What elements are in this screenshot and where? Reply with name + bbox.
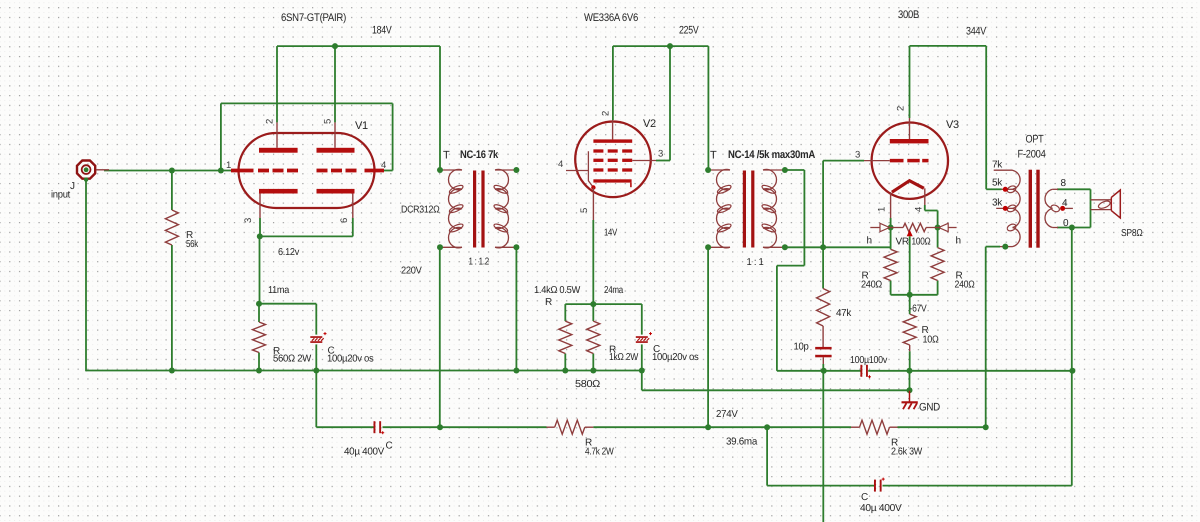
tube V1 6SN7-GT envelope — [239, 133, 375, 208]
capacitor C 40u 400V (left feed cap) — [374, 421, 376, 433]
V1 left anode bar — [259, 148, 298, 153]
speaker coil leaf — [1097, 200, 1111, 210]
OPT 5k tap — [1002, 188, 1013, 190]
capacitor C 40u 400V (output loop) — [874, 480, 876, 492]
VR wiper arrow — [907, 230, 913, 237]
svg-text:274V: 274V — [716, 409, 738, 420]
junction dot on 184V rail at pin5 — [332, 43, 338, 49]
svg-text:1: 1 — [226, 160, 231, 171]
OPT 7k stub lead — [994, 169, 1013, 171]
svg-text:47k: 47k — [836, 308, 852, 319]
V1 left cathode pin lead — [259, 194, 261, 219]
svg-text:2.6k 3W: 2.6k 3W — [891, 447, 923, 458]
wire: V1 pin 4 to feedback rail — [384, 170, 393, 172]
V3 filament pin 1 lead — [890, 192, 892, 218]
svg-text:4: 4 — [381, 160, 386, 171]
wire: 184V anode rail y=46.1 — [277, 45, 440, 47]
junction dot 47k node — [820, 244, 826, 250]
svg-text:1.4kΩ 0.5W: 1.4kΩ 0.5W — [534, 285, 581, 296]
svg-text:NC-16 7k: NC-16 7k — [460, 149, 499, 161]
V2 cathode pin5 lead — [592, 188, 594, 221]
svg-text:24ma: 24ma — [604, 285, 624, 296]
svg-text:J: J — [70, 181, 75, 192]
wire: 39.6ma branch down and right to output cap rail — [766, 427, 768, 485]
V2 grid rows dashes — [593, 149, 603, 152]
wire: R 560 leads — [258, 304, 260, 322]
svg-text:240Ω: 240Ω — [861, 280, 883, 291]
junction dot at jack/R56k node — [169, 168, 175, 174]
wire: 225V rail down to T2 primary top — [707, 46, 709, 170]
resistor R 240 right — [931, 248, 944, 281]
junction dot hum bottom center — [907, 292, 913, 298]
wire: T2 primary bottom down to 274V rail — [707, 247, 709, 427]
junction dot on 225V rail (screen feed) — [667, 43, 673, 49]
OPT secondary 8 lead — [1053, 188, 1058, 190]
svg-text:-67V: -67V — [910, 304, 928, 315]
wire: GND bus y=370.8 — [777, 370, 861, 372]
junction dots on left ground rail — [169, 368, 175, 374]
wire: 47k node to V3 grid (up and over) — [822, 161, 824, 248]
hum balance left arrow h — [870, 227, 880, 229]
svg-text:NC-14 /5k max30mA: NC-14 /5k max30mA — [728, 149, 815, 161]
capacitor C 100u20v os (V2 bypass) — [636, 336, 648, 338]
OPT secondary 4 tap — [1050, 204, 1061, 213]
svg-text:100µ20v os: 100µ20v os — [652, 352, 699, 363]
svg-text:2: 2 — [265, 119, 276, 124]
resistor R 1k 2W — [587, 321, 600, 353]
svg-text:3: 3 — [855, 150, 860, 161]
speaker SP8 pins — [1091, 199, 1111, 201]
capacitor C 100u100v (inline on GND bus) — [860, 365, 862, 377]
svg-text:6: 6 — [339, 218, 350, 223]
svg-text:1 : 1.2: 1 : 1.2 — [469, 257, 490, 268]
svg-text:344V: 344V — [966, 26, 987, 38]
junction dot OPT primary bottom drop — [983, 424, 989, 430]
resistor R 56k — [165, 210, 178, 245]
wire: V1 pin2 lead up to 184V rail — [276, 46, 278, 122]
svg-text:OPT: OPT — [1026, 134, 1044, 146]
svg-text:2: 2 — [601, 111, 612, 116]
junction dot T2 primary bottom drop — [705, 424, 711, 430]
svg-text:240Ω: 240Ω — [955, 280, 976, 291]
svg-text:F-2004: F-2004 — [1018, 149, 1046, 161]
wire: branch from rail down to B+ feed line — [315, 371, 317, 428]
transformer T1 NC-16 7k core — [473, 171, 476, 248]
V1 right cathode pin lead — [352, 194, 354, 219]
junction dot OPT 0 tap branch — [1069, 225, 1075, 231]
svg-text:4: 4 — [914, 207, 925, 212]
junction dot rail2 drop on input wire — [218, 168, 224, 174]
svg-text:7k: 7k — [992, 160, 1003, 171]
svg-text:5: 5 — [323, 119, 334, 124]
svg-text:580Ω: 580Ω — [575, 379, 601, 390]
OPT primary bottom lead — [986, 246, 1000, 248]
svg-text:GND: GND — [919, 402, 940, 414]
junction dot 39.6ma branch — [764, 424, 770, 430]
svg-text:5k: 5k — [992, 178, 1003, 189]
wire: left 240 ohm top lead — [890, 228, 892, 250]
wire: R56k leads — [171, 171, 173, 211]
svg-text:10p: 10p — [794, 342, 810, 353]
svg-text:10Ω: 10Ω — [923, 335, 940, 346]
svg-text:8: 8 — [1061, 178, 1067, 189]
V2 anode bar — [593, 139, 632, 142]
V1 right anode bar — [317, 148, 355, 153]
svg-text:h: h — [956, 236, 961, 247]
V2 cathode bar — [593, 179, 631, 182]
wire: V2 screen pin3 up to 225V rail — [669, 46, 671, 160]
wire: ground return from rail down to GND bus — [641, 371, 643, 391]
svg-text:V2: V2 — [643, 118, 656, 130]
svg-text:100µ20v os: 100µ20v os — [327, 354, 374, 365]
wire: feed rail between R4.7k and R2.6k — [585, 426, 594, 428]
speaker horn — [1111, 190, 1120, 218]
svg-text:1kΩ 2W: 1kΩ 2W — [609, 352, 639, 363]
resistor R 10 — [903, 314, 916, 345]
wire: grid feedback rail y=103.4 linking both V1 grids — [221, 102, 393, 104]
resistor 47k — [817, 289, 830, 327]
svg-text:100Ω: 100Ω — [912, 237, 932, 248]
wire: V3 filament pin4 lead jog down to hum pot — [924, 205, 926, 211]
svg-text:DCR312Ω: DCR312Ω — [401, 205, 440, 216]
V1 left anode pin lead — [276, 122, 278, 147]
svg-text:6.12v: 6.12v — [278, 247, 299, 258]
V2 screen row lead to pin 3 — [632, 160, 656, 162]
resistor R 1.4k — [559, 321, 572, 353]
svg-text:C: C — [386, 441, 393, 452]
wire: 10p cap bottom to GND bus, continuing to sheet bottom — [822, 357, 824, 364]
ground symbol 777 GND — [909, 391, 911, 402]
svg-text:C: C — [861, 492, 868, 503]
svg-text:100µ100v: 100µ100v — [850, 355, 887, 366]
wire: V1 pin5 lead up to 184V rail — [334, 46, 336, 122]
svg-text:T: T — [443, 150, 450, 162]
wire: V2 bypass cap branch — [641, 304, 643, 335]
wire: output cap rail right of 40u400V cap to OPT secondary 0 line — [883, 485, 1072, 487]
wire: 184V rail down to T1 primary top — [439, 46, 441, 170]
V1 left grid dashes pin1 — [231, 169, 254, 173]
wire: 47k node over to left 240 ohm resistor top — [823, 246, 891, 248]
svg-text:SP8Ω: SP8Ω — [1121, 228, 1143, 239]
V3 filament — [892, 181, 924, 193]
wire: right 240 ohm top lead — [937, 228, 939, 248]
wire: jack ground lead down to bottom rail — [85, 179, 87, 371]
wire: V1 cathode bottom rail (left ground rail y=370.5) — [86, 370, 642, 372]
T2 terminal dots — [705, 167, 711, 173]
wire: input jack to V1 grid pin 1 (y=170.5) — [104, 170, 232, 172]
svg-text:4: 4 — [558, 159, 563, 170]
wire: 225V rail y=46.1 — [613, 45, 709, 47]
resistor R 2.6k 3W — [860, 420, 890, 434]
svg-text:4: 4 — [1062, 198, 1068, 209]
svg-text:VR: VR — [896, 237, 909, 248]
wire: GND stub — [909, 371, 911, 393]
svg-text:40µ 400V: 40µ 400V — [344, 447, 385, 458]
svg-text:WE336A 6V6: WE336A 6V6 — [584, 12, 638, 24]
OPT 3k tap stub — [996, 207, 1012, 209]
wire: wiper stem down from arrow — [909, 236, 911, 294]
svg-text:1 : 1: 1 : 1 — [747, 257, 765, 268]
wire: V3 anode 344V run to OPT 5k tap — [909, 46, 911, 118]
T1 primary winding — [440, 169, 462, 171]
svg-text:T: T — [710, 150, 717, 162]
capacitor 10p — [815, 347, 831, 350]
wire: C 100u20v lower lead to rail — [315, 344, 317, 370]
V3 grid pin lead — [864, 160, 890, 162]
wire: B+ feed rail after cap to R4.7k — [383, 426, 547, 428]
wire: T2 secondary bottom to 47k node — [785, 246, 823, 248]
wire: V1 cathode down to 11ma node — [259, 236, 261, 303]
wire: R10 bottom to GND bus — [909, 351, 911, 371]
svg-text:input: input — [51, 190, 70, 201]
junction dot V1 cathode link — [257, 233, 263, 239]
svg-text:6SN7-GT(PAIR): 6SN7-GT(PAIR) — [281, 12, 346, 24]
svg-text:39.6ma: 39.6ma — [726, 437, 758, 448]
svg-text:225V: 225V — [679, 25, 699, 37]
resistor R 240 left — [884, 249, 897, 280]
junction dots hum pot ends — [888, 225, 894, 231]
svg-text:0: 0 — [1063, 218, 1069, 229]
wire: 220V line from T1 primary bottom down to feed rail — [439, 247, 441, 427]
wire: R1k leads — [592, 304, 594, 321]
junction dot GND stub on return line — [907, 387, 913, 393]
resistor R 560ohm 2W — [253, 322, 266, 353]
svg-text:2: 2 — [896, 106, 907, 111]
svg-text:V3: V3 — [946, 119, 959, 131]
wire: V3 filament pin1 lead down to hum pot — [890, 218, 892, 228]
wire: -67V node down to R10 — [909, 295, 911, 314]
junction dot 11ma node — [256, 301, 262, 307]
V2 grid bracket pin 4 — [566, 170, 588, 172]
svg-text:560Ω 2W: 560Ω 2W — [273, 354, 312, 365]
T1 terminal dots — [437, 167, 443, 173]
V1 right anode pin lead — [334, 122, 336, 147]
svg-text:184V: 184V — [372, 25, 392, 37]
svg-text:220V: 220V — [401, 266, 422, 277]
T2 primary winding — [708, 169, 730, 171]
wire: hum pot bottom link y=294.8 — [891, 294, 938, 296]
wire: OPT secondary 8 lead to speaker loop — [1057, 188, 1091, 190]
V1 left cathode bar — [259, 189, 298, 194]
V3 anode bar — [890, 139, 929, 143]
wire: R1.4k leads — [564, 304, 566, 321]
wire: V2 cathode node link y=304.1 — [565, 303, 642, 305]
junction dots on GND bus — [821, 368, 827, 374]
svg-text:300B: 300B — [898, 9, 919, 21]
OPT primary winding — [1013, 170, 1021, 246]
wire: OPT secondary 0 lead — [1057, 227, 1091, 229]
wire: V2 pin5 lead down to cathode node — [592, 220, 594, 304]
junction dot 220V drop on feed rail — [437, 424, 443, 430]
svg-text:V1: V1 — [355, 120, 368, 132]
tube V2 WE336A envelope circle — [575, 122, 651, 198]
tube V3 300B envelope circle — [872, 123, 948, 199]
wire: T2 secondary top to ground bus (right loop) — [785, 169, 805, 171]
V2 anode pin lead — [612, 120, 614, 139]
svg-text:h: h — [867, 236, 872, 247]
svg-text:3: 3 — [658, 149, 663, 160]
OPT secondary 0 lead — [1053, 227, 1058, 229]
wire: feed rail from R2.6k to OPT primary bottom drop — [890, 426, 898, 428]
svg-text:5: 5 — [579, 208, 590, 213]
svg-text:R: R — [545, 297, 552, 308]
wire: B+ 274V feed rail y=427.2 (left part to 40u cap) — [316, 426, 373, 428]
V1 right cathode bar — [317, 189, 355, 194]
OPT secondary winding (8/4/0) — [1045, 189, 1053, 227]
svg-text:1: 1 — [877, 207, 888, 212]
wire: 47k leads — [822, 247, 824, 288]
V3 filament pin 4 lead — [924, 188, 926, 205]
svg-text:4.7k 2W: 4.7k 2W — [585, 447, 614, 458]
potentiometer VR 100 zigzag — [891, 227, 904, 229]
T1 secondary winding — [495, 169, 516, 171]
wire: 11ma node to bypass cap branch — [259, 303, 316, 305]
V3 grid dashes pin 3 — [890, 159, 904, 163]
wire: V2 anode lead up to 225V rail — [612, 46, 614, 120]
hum balance right arrow h — [948, 227, 956, 229]
V2 internal junction dot (red) — [591, 185, 595, 189]
svg-text:3k: 3k — [992, 198, 1003, 209]
transformer OPT F-2004 core — [1029, 170, 1032, 248]
OPT primary bottom terminal dot — [1002, 244, 1008, 250]
V1 right grid dashes pin4 — [317, 169, 328, 173]
svg-text:56k: 56k — [186, 239, 199, 250]
svg-text:14V: 14V — [604, 228, 617, 239]
transformer T2 NC-14 core — [743, 171, 746, 248]
capacitor C 100u20v os (V1 bypass) — [310, 336, 322, 338]
wire: OPT primary bottom down to feed rail — [985, 247, 987, 428]
svg-text:3: 3 — [243, 218, 254, 223]
svg-text:11ma: 11ma — [268, 285, 290, 296]
wire: T1 secondary bottom down to ground rail — [515, 247, 517, 370]
junction dot V2 cathode node — [590, 301, 596, 307]
svg-text:40µ 400V: 40µ 400V — [860, 503, 902, 514]
T2 secondary winding — [763, 169, 785, 171]
wire: V1 cathode link y=236.4 — [260, 235, 353, 237]
resistor R 4.7k 2W — [555, 420, 585, 434]
V3 anode pin lead — [909, 118, 911, 139]
connector J input jack — [77, 161, 95, 179]
